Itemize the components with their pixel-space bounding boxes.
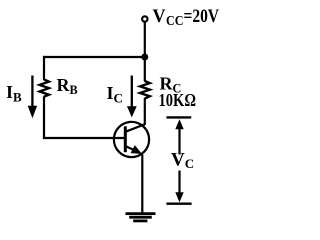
svg-text:CC: CC [166,13,184,28]
VC arrow lower segment with down arrowhead [178,171,180,195]
svg-text:10KΩ: 10KΩ [159,90,197,110]
resistor RC zigzag [140,81,150,99]
VC measurement top bar [166,116,191,118]
wire top horizontal [43,56,145,58]
transistor collector diagonal [125,124,145,132]
wire Vcc terminal to junction [144,22,146,58]
VC measurement bottom bar [166,202,191,204]
wire base horizontal [43,137,126,139]
wire left vertical lower [43,96,45,138]
wire RC bottom to collector [144,98,146,125]
svg-text:V: V [153,6,166,27]
transistor emitter diagonal with arrowhead [125,146,137,152]
junction node dot [141,54,148,61]
VC arrow upper segment with up arrowhead [178,127,180,155]
wire emitter vertical [141,155,143,214]
transistor base bar [124,126,127,152]
ground symbol [126,212,156,215]
transistor Q1 circle [114,122,149,157]
IC current arrow [131,76,133,108]
resistor RB zigzag [40,80,49,97]
IB current arrow [31,76,33,108]
wire left vertical upper [43,56,45,80]
svg-text:=20V: =20V [184,6,220,27]
wire RC top (junction to resistor) [144,57,146,82]
terminal Vcc (open circle) [142,16,147,21]
